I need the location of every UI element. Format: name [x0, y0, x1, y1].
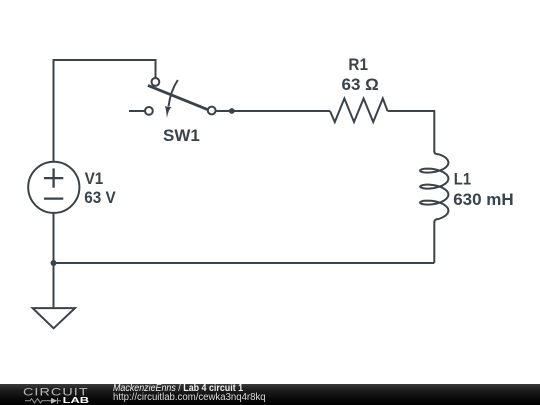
svg-text:63 Ω: 63 Ω	[342, 75, 379, 94]
footer url line	[113, 393, 266, 403]
svg-text:LAB: LAB	[63, 396, 90, 405]
terminal circle top throw	[152, 78, 160, 86]
svg-text:V1: V1	[85, 169, 104, 188]
wire SW1 pole to resistor R1 left	[216, 110, 330, 112]
wire V1 bottom to ground node	[53, 213, 55, 308]
footer title line	[113, 384, 243, 394]
footer bar	[0, 384, 540, 405]
ground symbol	[33, 308, 75, 328]
terminal circle left throw	[145, 107, 153, 115]
wire top-left from V1 up and right to SW1 top terminal	[54, 60, 156, 162]
terminal circle pole	[208, 107, 216, 115]
wire inductor bottom to bottom-right corner	[433, 222, 435, 263]
logo resistor-diode wire	[25, 398, 61, 404]
svg-text:R1: R1	[348, 55, 368, 74]
resistor R1	[330, 99, 388, 123]
inductor L1 coil	[420, 151, 448, 222]
wire stub left throw	[129, 110, 145, 112]
wire R1 right to top-right corner down to inductor	[388, 111, 435, 152]
actuation arrow arc	[169, 80, 178, 107]
actuation arrowhead	[165, 106, 172, 118]
switch lever	[148, 85, 208, 109]
voltage source V1	[28, 162, 79, 213]
svg-text:L1: L1	[454, 170, 471, 188]
wire bottom rail	[54, 262, 435, 264]
junction dot ground node	[51, 260, 57, 266]
switch SW1	[129, 78, 216, 115]
svg-text:63 V: 63 V	[84, 188, 116, 207]
junction dot at switch pole net	[229, 108, 235, 114]
footer circuitlab logo	[0, 384, 110, 405]
svg-text:630 mH: 630 mH	[453, 190, 513, 209]
svg-text:SW1: SW1	[163, 126, 200, 145]
logo diode triangle	[51, 398, 57, 404]
